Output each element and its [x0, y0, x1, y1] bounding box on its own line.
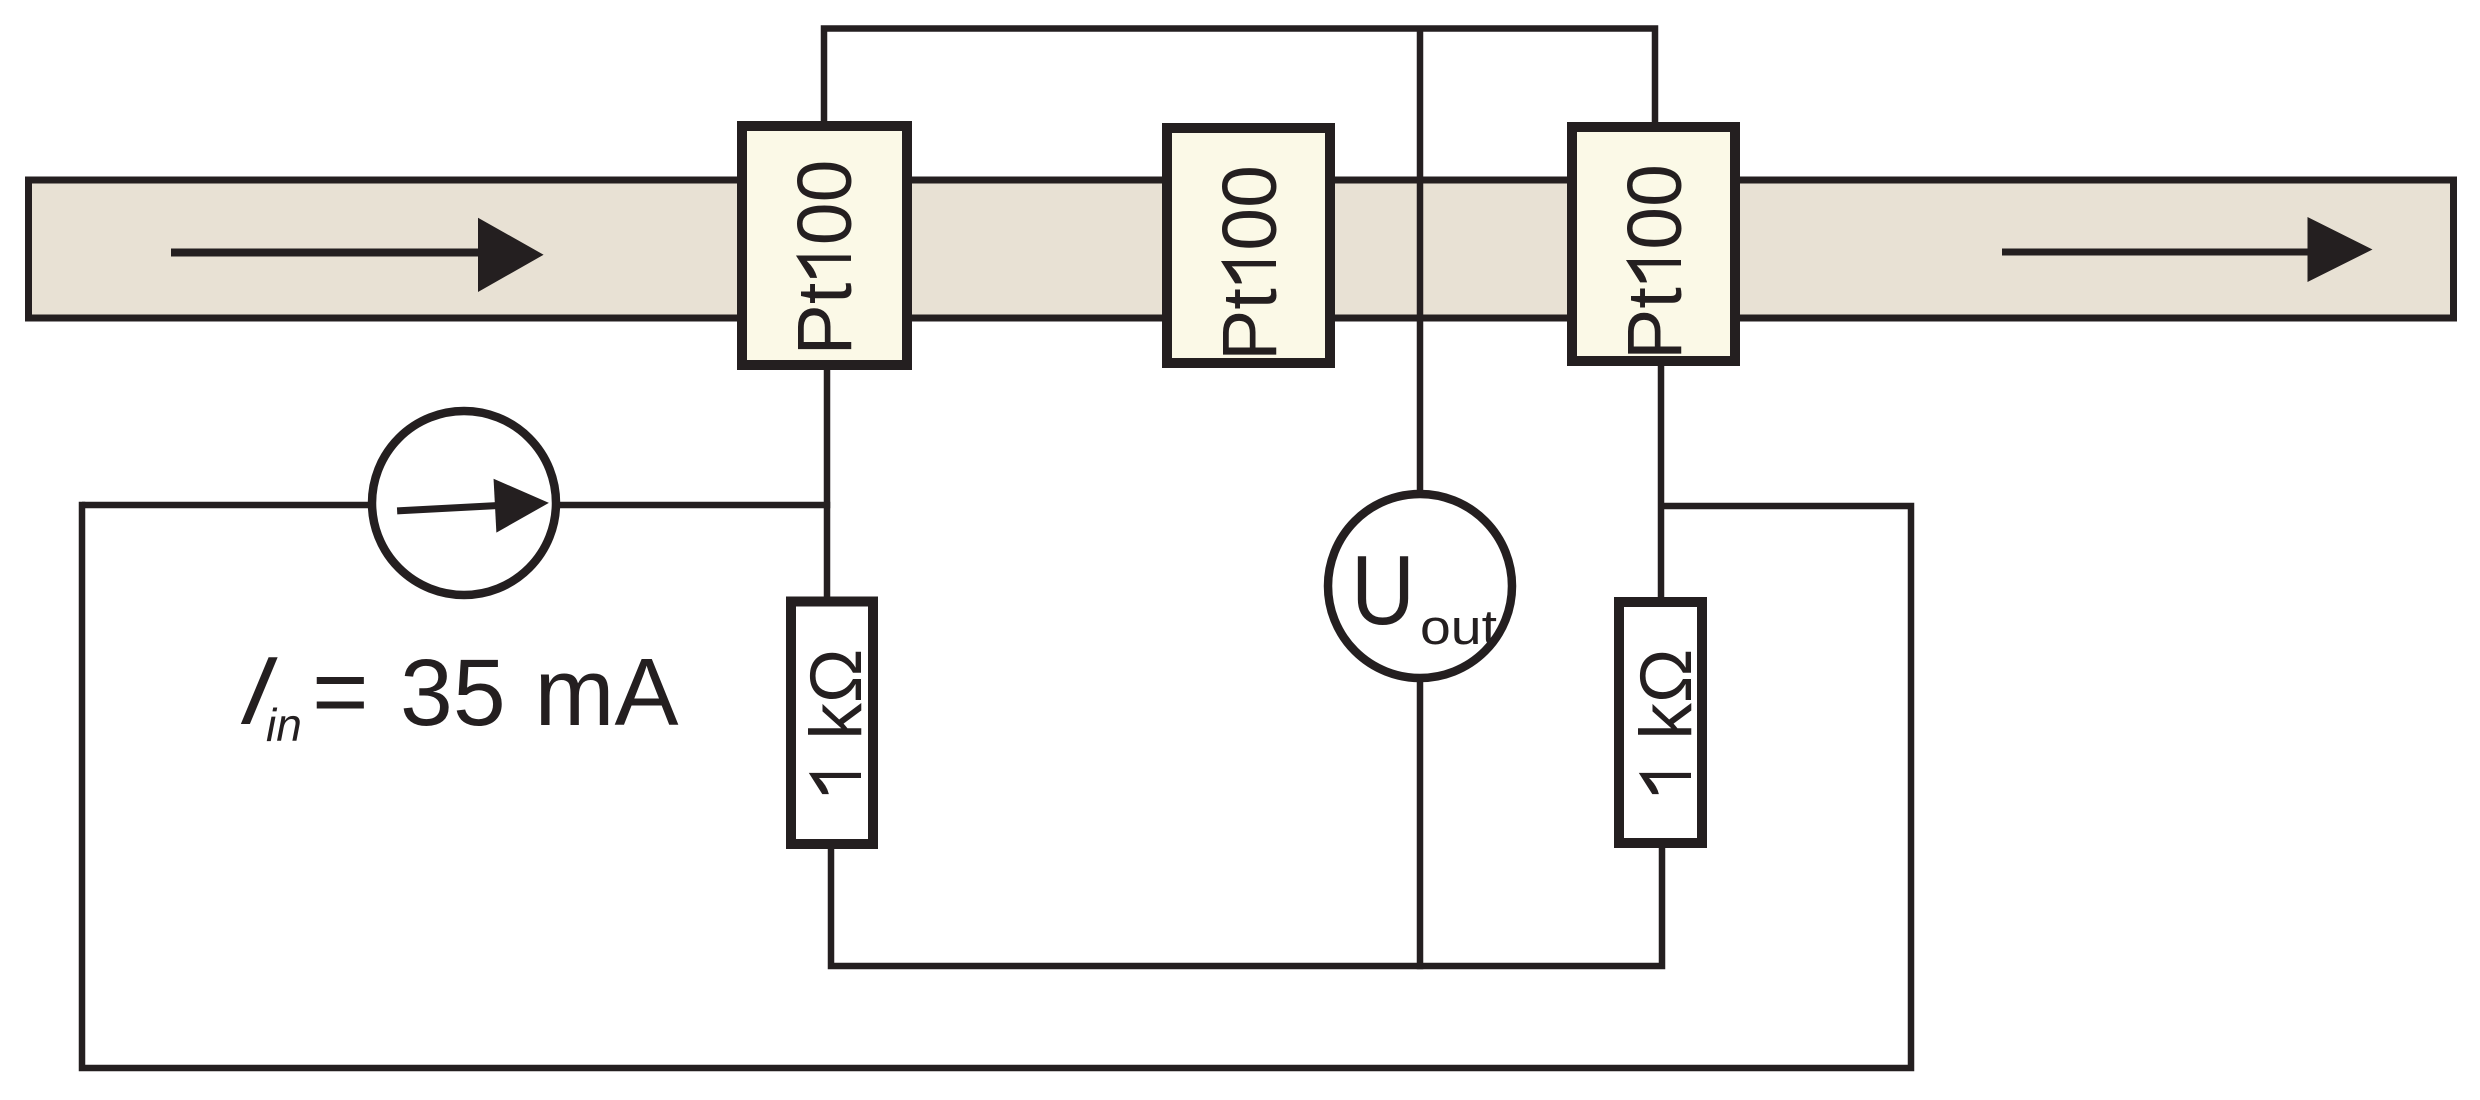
wire Uout lower vertical: [1417, 678, 1424, 969]
svg-text:kΩ: kΩ: [796, 649, 877, 740]
current source Iin: [372, 411, 556, 595]
wire Pt100 T3 bottom to resistor R2: [1658, 363, 1665, 602]
pipe flow channel: [29, 180, 2454, 318]
svg-text:Pt: Pt: [1612, 287, 1698, 360]
svg-text:Pt: Pt: [1207, 288, 1293, 361]
svg-text:=: =: [312, 637, 369, 746]
svg-text:kΩ: kΩ: [1626, 649, 1707, 740]
svg-text:00: 00: [1207, 165, 1293, 251]
wire current-source row left segment: [82, 502, 368, 509]
flow arrow left: [171, 218, 544, 292]
svg-text:00: 00: [1612, 164, 1698, 250]
wire current source to node A: [557, 502, 830, 509]
wire outer loop: left vertical, bottom, right vertical, right row: [82, 502, 1911, 1068]
wire top loop from Pt100 T1 to Pt100 T3: [824, 29, 1655, 125]
temperature sensor Pt100 T1: [742, 126, 907, 365]
flow arrow right: [2002, 217, 2373, 282]
svg-text:mA: mA: [535, 639, 679, 746]
svg-text:in: in: [266, 699, 302, 751]
label Iin = 35 mA: [232, 636, 678, 751]
wire inner bottom row with resistor bottom leads: [831, 844, 1662, 966]
svg-text:00: 00: [782, 160, 868, 246]
voltmeter Uout: [1328, 494, 1512, 678]
svg-text:out: out: [1420, 601, 1497, 655]
wire Pt100 T1 bottom to node A: [824, 366, 831, 601]
svg-text:U: U: [1351, 535, 1415, 645]
resistor R2 1 kOhm: [1619, 602, 1707, 843]
temperature sensor Pt100 T3: [1572, 127, 1735, 361]
svg-text:35: 35: [400, 640, 506, 746]
svg-text:Pt: Pt: [782, 283, 868, 356]
resistor R1 1 kOhm: [791, 602, 877, 845]
temperature sensor Pt100 T2: [1167, 128, 1330, 363]
wire Uout upper vertical: [1417, 29, 1424, 499]
